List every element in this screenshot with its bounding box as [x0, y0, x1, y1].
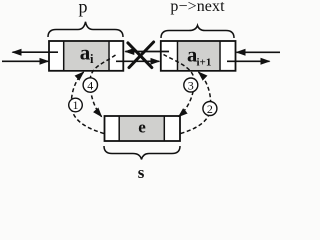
svg-text:s: s: [138, 163, 145, 182]
brace over node p->next: [161, 26, 234, 39]
circled number 1: [69, 98, 83, 112]
circled number 4: [83, 78, 97, 93]
svg-text:p−>next: p−>next: [170, 0, 225, 15]
brace over node p: [48, 22, 123, 37]
wire: prior pointer of a_i+1 back to p (old link): [125, 51, 169, 53]
node p->next (a_i+1): [161, 41, 236, 71]
svg-text:e: e: [138, 118, 146, 137]
dashed arc 3: p->next->prior = s: [164, 55, 195, 117]
svg-text:i: i: [90, 52, 94, 66]
svg-text:2: 2: [207, 102, 213, 116]
circled number 3: [184, 78, 198, 92]
wire: next pointer of p to a_i+1 (old link): [116, 60, 159, 62]
svg-text:3: 3: [188, 78, 194, 92]
value label e: [138, 118, 146, 137]
wire: next pointer of previous node into p: [2, 60, 48, 62]
svg-text:4: 4: [87, 78, 93, 92]
X mark over broken links: [128, 42, 154, 68]
brace under node s: [104, 146, 180, 160]
circled number 2: [203, 102, 217, 116]
label s: [138, 163, 145, 182]
dashed arc 1: s->prior = p: [71, 72, 104, 133]
node s (e): [105, 116, 181, 141]
label p: [79, 0, 88, 16]
wire: next pointer of a_i+1, arrow to right: [227, 60, 270, 62]
svg-text:1: 1: [73, 98, 79, 112]
dashed arc 2: s->next = p->next: [181, 72, 211, 133]
wire: prior pointer of p, arrow to left: [13, 51, 59, 53]
dashed arc 4: p->next = s: [90, 55, 115, 117]
svg-text:p: p: [79, 0, 88, 16]
svg-text:i+1: i+1: [197, 56, 212, 68]
wire: prior pointer of a_i+1 external, arrow in from right: [237, 51, 281, 53]
node p (a_i): [49, 41, 123, 71]
label p->next: [170, 0, 225, 15]
value label a_i: [80, 41, 94, 66]
value label a_i+1: [187, 44, 211, 68]
